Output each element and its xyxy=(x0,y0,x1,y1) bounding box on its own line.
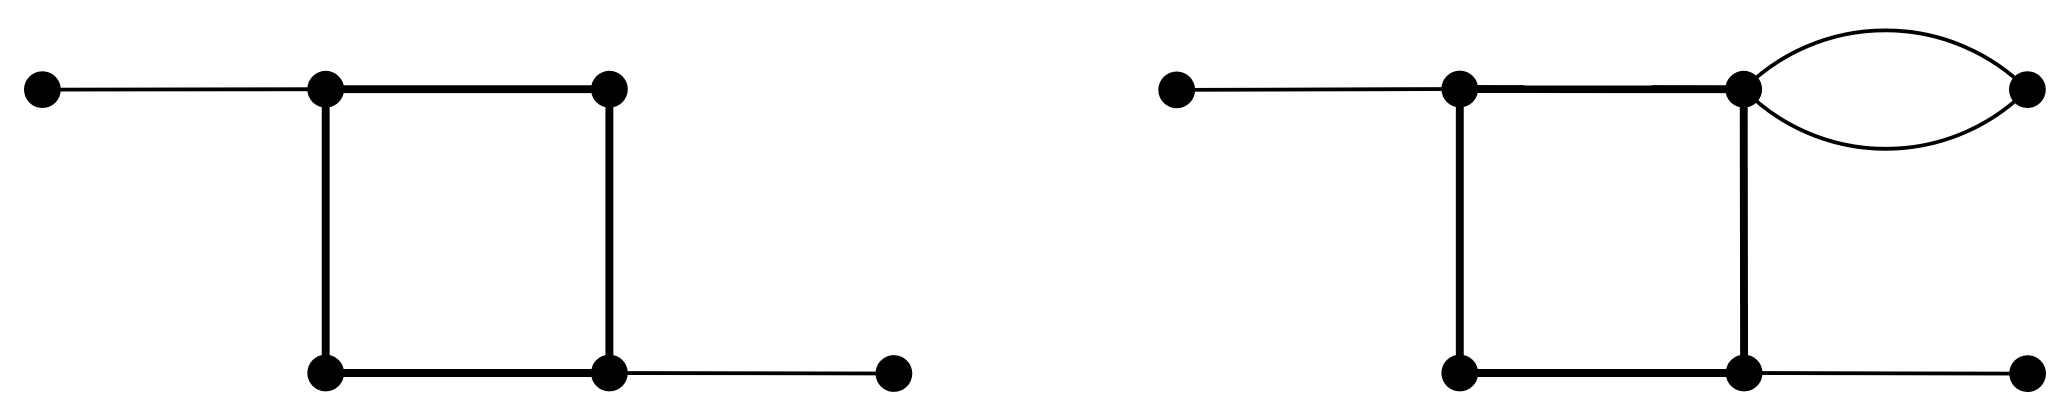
left graph: pendant edge A-B xyxy=(42,87,325,91)
right graph: multi-edge lower arc I-L xyxy=(1744,89,2028,149)
left graph: vertex C (square top-right) xyxy=(591,71,628,108)
left graph: vertex A xyxy=(24,71,61,108)
right graph: multi-edge upper arc I-L xyxy=(1744,30,2028,89)
right graph: pendant edge K-M xyxy=(1744,371,2028,375)
left graph: square left edge B-D xyxy=(322,89,330,373)
left graph: square bottom edge D-E xyxy=(326,369,610,377)
left graph: vertex F xyxy=(876,355,913,392)
right graph: vertex H (square top-left) xyxy=(1441,71,1478,108)
left graph: vertex B (square top-left) xyxy=(307,71,344,108)
left graph: square right edge C-E xyxy=(605,89,613,373)
right graph: vertex K (square bottom-right) xyxy=(1726,355,1763,392)
right graph: vertex M xyxy=(2009,355,2046,392)
right graph: square right edge I-K xyxy=(1740,89,1748,373)
left graph: pendant edge E-F xyxy=(609,371,894,375)
right graph: square left edge H-J xyxy=(1456,89,1464,373)
left graph: square top edge B-C xyxy=(326,85,610,93)
right graph: vertex I (square top-right) xyxy=(1725,71,1762,108)
left graph: vertex D (square bottom-left) xyxy=(307,355,344,392)
right graph: square top edge H-I xyxy=(1460,85,1744,93)
right graph: pendant edge G-H xyxy=(1177,87,1460,92)
right graph: square bottom edge J-K xyxy=(1460,369,1744,377)
right graph: vertex G xyxy=(1158,72,1195,109)
left graph: vertex E (square bottom-right) xyxy=(591,355,628,392)
right graph: vertex L (lens right) xyxy=(2009,71,2046,108)
right graph: vertex J (square bottom-left) xyxy=(1441,355,1478,392)
